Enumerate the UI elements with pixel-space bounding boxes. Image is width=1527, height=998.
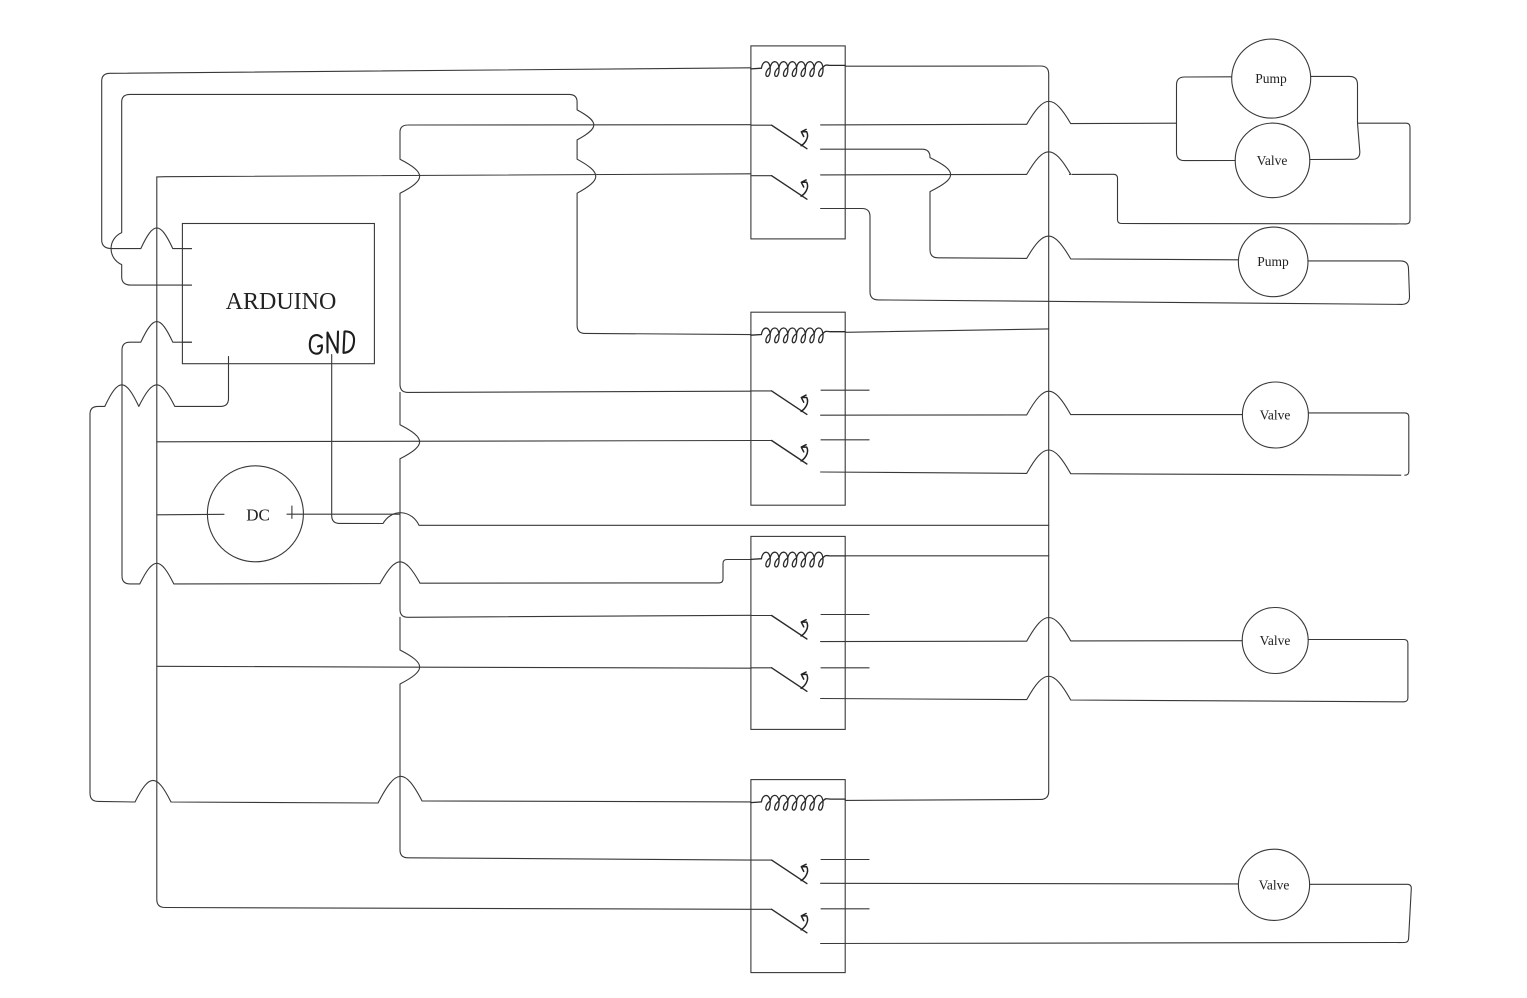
wire: Arduino pin2 to relay K2 coil <box>111 94 751 334</box>
Arduino module box <box>182 224 374 364</box>
relay K2 switch 1 actuation arrow <box>801 395 807 411</box>
wire: valve V2 right lead down <box>1308 413 1408 475</box>
relay K2 switch 1 NC terminal stub <box>821 389 870 391</box>
valve V3 <box>1242 608 1308 674</box>
relay K3 switch 2 blade <box>772 668 807 692</box>
wire: DC negative lead to rail <box>157 513 224 516</box>
relay K1 switch 1 actuation arrow <box>801 129 807 145</box>
relay K4 switch 1 common contact <box>751 859 772 861</box>
relay K4 switch 2 NC terminal stub <box>821 908 870 910</box>
relay K4 switch 2 common contact <box>751 908 772 910</box>
wire: relay K4 switch1 NO out to valve V4 <box>821 882 1239 885</box>
DC source circle <box>207 466 303 562</box>
relay K2 switch 2 actuation arrow <box>801 445 807 461</box>
relay K2 coil <box>751 328 845 343</box>
svg-text:ARDUINO: ARDUINO <box>226 289 337 315</box>
relay K4 coil <box>751 795 845 810</box>
relay K1 switch 1 common contact <box>751 124 772 126</box>
pin 3 tick <box>182 341 191 343</box>
wire: relay K1 switch2 NC out segment <box>821 152 1071 175</box>
wire: DC- rail to relay K1 switch2 <box>157 174 751 177</box>
relay K1 switch 2 blade <box>772 176 807 200</box>
svg-text:Valve: Valve <box>1260 408 1291 423</box>
relay K3 switch 1 common contact <box>751 615 772 617</box>
pump P1 <box>1232 39 1311 118</box>
wire: valve V3 return to relay K3 switch2 NO <box>821 640 1408 702</box>
wire: DC- rail (x157) down to relay K4 switch2 <box>157 177 751 909</box>
relay K1 switch 1 blade <box>772 125 807 149</box>
wire: DC- rail to relay K3 switch2 <box>157 666 751 668</box>
svg-text:Pump: Pump <box>1255 71 1287 86</box>
relay K2 box <box>751 312 845 505</box>
wire: relay K1 switch1 NO out to Pump2 <box>821 149 1239 260</box>
wire: Arduino GND to coil-return bus <box>332 355 1049 526</box>
relay K4 switch 2 blade <box>772 909 807 933</box>
relay K3 switch 2 common contact <box>751 667 772 669</box>
plus sign vertical <box>291 506 293 518</box>
svg-text:Pump: Pump <box>1257 254 1289 269</box>
svg-text:Valve: Valve <box>1257 153 1288 168</box>
relay K3 box <box>751 536 845 729</box>
wire: group left rail feeding Pump1 and Valve1 <box>1177 77 1236 161</box>
wire: coil-return bus (x1049) from relay K1 coil to relay K4 coil <box>845 66 1048 800</box>
wire: DC- rail to relay K2 switch2 <box>157 441 751 442</box>
relay K2 switch 1 blade <box>772 391 807 415</box>
wire: Arduino pin1 to relay K1 coil <box>102 68 751 249</box>
wire: relay K2 coil return to bus <box>845 329 1048 332</box>
svg-text:Valve: Valve <box>1260 633 1291 648</box>
wire: relay K3 switch1 NO out to valve V3 <box>821 617 1243 641</box>
valve V1 <box>1235 123 1310 198</box>
relay K3 switch 1 NC terminal stub <box>821 614 870 616</box>
wire: group output loop back toward relay K1 switch2 <box>1072 123 1410 224</box>
pin 1 tick <box>182 248 191 250</box>
valve V2 <box>1242 382 1308 448</box>
relay K2 switch 2 blade <box>772 441 807 465</box>
relay K3 switch 2 NC terminal stub <box>821 667 870 669</box>
wire: group right rail joining Pump1 and Valve1 <box>1310 76 1360 159</box>
relay K4 switch 1 NC terminal stub <box>821 859 870 861</box>
pump P2 <box>1238 227 1308 297</box>
relay K4 switch 1 blade <box>772 860 807 884</box>
wire: relay K2 switch1 NO out to valve V2 <box>821 391 1243 415</box>
wire: relay K1 switch1 NC out to pump/valve group <box>821 101 1177 125</box>
relay K4 switch 2 actuation arrow <box>801 914 807 930</box>
relay K2 switch 1 common contact <box>751 390 772 392</box>
relay K2 switch 2 common contact <box>751 440 772 442</box>
relay K1 switch 2 common contact <box>751 175 772 177</box>
wire: Arduino pin3 to relay K3 coil <box>122 322 751 584</box>
pin 2 tick <box>182 284 191 286</box>
wire: Arduino bottom pin to relay K4 coil <box>90 357 751 804</box>
wire: valve V4 return to relay K4 switch2 NO <box>821 884 1412 943</box>
relay K1 switch 2 actuation arrow <box>801 180 807 196</box>
relay K4 switch 1 actuation arrow <box>801 864 807 880</box>
wire: relay K3 coil return to bus <box>845 555 1048 557</box>
relay K3 switch 1 blade <box>772 616 807 640</box>
wire: DC+ bus (x400) feeding switch1 of relays K1-K4 <box>400 125 751 860</box>
relay K1 box <box>751 46 845 239</box>
wire: DC positive lead to DC+ bus <box>287 513 400 515</box>
GND pin label (handwritten) <box>310 331 354 353</box>
relay K3 coil <box>751 552 845 567</box>
svg-text:Valve: Valve <box>1259 878 1290 893</box>
relay K4 box <box>751 780 845 973</box>
relay K2 switch 2 NC terminal stub <box>821 439 870 441</box>
wire: Pump2 return to relay K1 switch2 NO <box>821 209 1410 305</box>
wire: valve V2 return to relay K2 switch2 NO <box>821 450 1401 475</box>
relay K1 coil <box>751 62 845 77</box>
svg-text:DC: DC <box>246 506 270 525</box>
valve V4 <box>1238 849 1309 920</box>
relay K3 switch 1 actuation arrow <box>801 620 807 636</box>
relay K3 switch 2 actuation arrow <box>801 672 807 688</box>
